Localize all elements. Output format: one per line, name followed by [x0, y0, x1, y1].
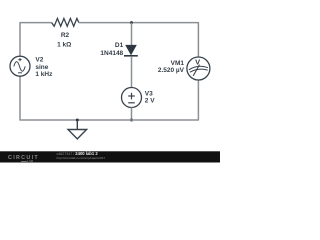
node junction bottom (V3 to ground net): [130, 119, 133, 122]
wire D1 anode lead: [131, 23, 133, 46]
node junction top (D1 branch): [130, 21, 133, 24]
node ground junction: [76, 119, 79, 122]
wire D1 cathode to V3 top: [131, 56, 133, 87]
wire top horizontal right segment with top-right corner down to VM1: [79, 23, 199, 58]
svg-text:R2: R2: [61, 32, 70, 39]
svg-text:http://circuitlab.com/csrqvkqa: http://circuitlab.com/csrqvkqa2cu667: [57, 156, 106, 160]
voltmeter VM1: [187, 57, 210, 80]
svg-text:V3: V3: [145, 91, 153, 98]
wire V2 bottom lead, bottom horizontal, VM1 bottom lead: [20, 76, 198, 120]
svg-text:V2: V2: [35, 57, 43, 64]
wire V2 top lead and top-left corner to resistor: [20, 23, 52, 57]
svg-text:▬▬LAB: ▬▬LAB: [21, 159, 34, 163]
svg-text:2.520 µV: 2.520 µV: [158, 67, 185, 74]
source V2 (sine): [10, 56, 30, 76]
watermark bar: [0, 151, 220, 162]
svg-text:2 V: 2 V: [145, 98, 155, 105]
wire V3 bottom lead: [131, 107, 133, 120]
diode D1: [124, 45, 138, 56]
resistor R2: [52, 18, 79, 26]
svg-text:sine: sine: [35, 64, 48, 71]
svg-text:D1: D1: [115, 42, 124, 49]
source V3 (2V DC): [122, 88, 142, 108]
svg-text:1 kΩ: 1 kΩ: [57, 41, 71, 48]
svg-text:1N4148: 1N4148: [100, 50, 123, 57]
ground: [68, 120, 87, 139]
svg-text:1 kHz: 1 kHz: [35, 71, 53, 78]
svg-text:VM1: VM1: [171, 60, 185, 67]
